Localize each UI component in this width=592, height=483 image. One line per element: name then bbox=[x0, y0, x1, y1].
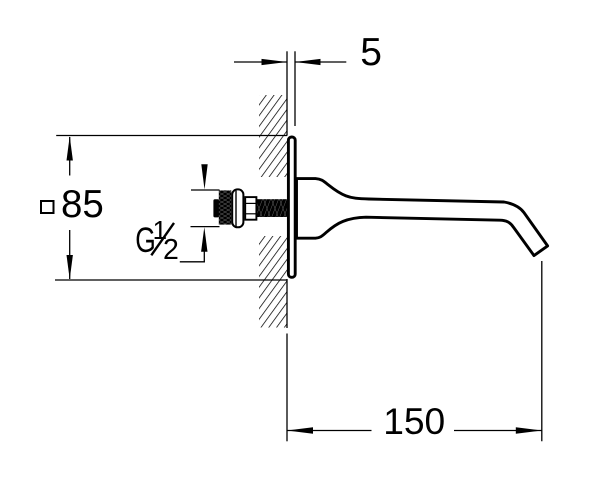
85-dim dimension line lower segment bbox=[69, 230, 71, 279]
svg-text:2: 2 bbox=[163, 234, 179, 266]
hex nut facet line lower bbox=[245, 213, 257, 215]
escutcheon wall plate bbox=[288, 137, 295, 277]
spout body bbox=[297, 179, 548, 256]
85-dim dimension line upper segment bbox=[69, 137, 71, 176]
wall face line (lower, also 150-dim left extension) bbox=[286, 279, 288, 328]
hex nut facet line upper bbox=[245, 202, 257, 204]
svg-text:5: 5 bbox=[360, 31, 382, 74]
wall face line (upper, also 5-dim left extension) bbox=[286, 51, 288, 135]
square symbol bbox=[41, 201, 54, 213]
5-dim dimension line right segment bbox=[295, 61, 346, 63]
85-dim top arrowhead bbox=[67, 136, 73, 160]
85-dim top extension line bbox=[56, 135, 287, 137]
85-dim bottom extension line bbox=[55, 279, 287, 281]
150-dim dimension line right segment bbox=[454, 430, 542, 432]
knurled thread collar bbox=[219, 184, 232, 232]
svg-text:85: 85 bbox=[61, 183, 104, 226]
5-dim left arrowhead bbox=[262, 59, 288, 65]
G1/2 leader horizontal bbox=[180, 261, 205, 263]
150-dim left arrowhead bbox=[287, 427, 313, 433]
threaded rod bbox=[255, 198, 295, 219]
5-dim right extension line bbox=[294, 51, 296, 126]
G1/2 top reference line bbox=[191, 189, 220, 191]
G1/2 label fraction slash bbox=[151, 223, 174, 255]
5-dim dimension line left segment bbox=[234, 61, 287, 63]
G1/2 down arrowhead bbox=[201, 164, 207, 189]
G1/2 leader stem bbox=[203, 249, 205, 262]
wall hatch lower block bbox=[259, 236, 287, 328]
svg-text:150: 150 bbox=[383, 400, 445, 442]
G1/2 bottom reference line bbox=[191, 226, 220, 228]
85-dim bottom arrowhead bbox=[67, 255, 73, 279]
wall hatch upper block bbox=[259, 95, 287, 177]
150-dim right arrowhead bbox=[516, 427, 542, 433]
G1/2 up arrowhead bbox=[201, 227, 207, 252]
washer / flange ring bbox=[232, 189, 243, 227]
pipe stub end bbox=[213, 199, 219, 217]
5-dim right arrowhead bbox=[295, 59, 321, 65]
150-dim dimension line left segment bbox=[287, 430, 372, 432]
150-dim right extension line bbox=[541, 261, 543, 441]
150-dim left extension line bbox=[286, 334, 288, 442]
washer inner edge line bbox=[235, 191, 237, 227]
hex nut bbox=[245, 197, 256, 220]
